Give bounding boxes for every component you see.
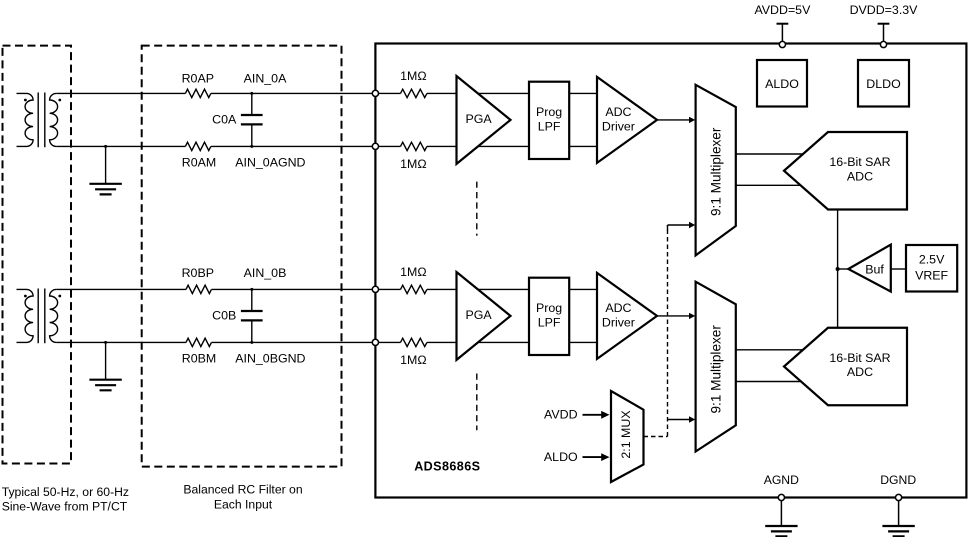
wire LPF B to driver B [569, 289, 597, 342]
op-amp Buf [848, 245, 891, 292]
svg-text:Sine-Wave from PT/CT: Sine-Wave from PT/CT [2, 500, 128, 514]
wire driver A to mux (arrow) [657, 117, 695, 123]
wire 2:1 MUX output (dashed net) [644, 225, 668, 437]
op-amp PGA A [457, 76, 511, 164]
multiplexer U-MUXA 9:1 [696, 85, 736, 256]
svg-text:R0AM: R0AM [182, 155, 216, 169]
power AVDD=5V [754, 3, 811, 48]
svg-text:AVDD: AVDD [544, 407, 578, 421]
wire: channel A top (AIN_0A) [56, 92, 185, 94]
svg-text:AGND: AGND [764, 473, 799, 487]
resistor R0BM [182, 338, 216, 365]
resistor 1Mohm (AIN_0AGND) [400, 142, 427, 171]
transformer T2 [17, 289, 62, 344]
resistor R0BP [182, 266, 214, 294]
ground AGND [765, 526, 797, 536]
svg-text:C0A: C0A [212, 113, 237, 127]
op-amp ADC Driver A [597, 77, 657, 163]
wire VREF to buf [891, 268, 906, 270]
svg-text:1MΩ: 1MΩ [400, 69, 426, 83]
svg-text:1MΩ: 1MΩ [400, 265, 426, 279]
op-amp PGA B [457, 272, 511, 360]
wire [427, 92, 457, 94]
wire LPF A to driver A [569, 93, 597, 146]
svg-text:Each Input: Each Input [214, 498, 273, 512]
svg-text:DGND: DGND [880, 473, 916, 487]
pin AIN_0A (terminal circle) [372, 90, 378, 96]
caption balanced RC filter [183, 483, 302, 512]
wire buf output [838, 268, 849, 270]
ground (transformer T2 secondary) [89, 341, 121, 390]
svg-text:Buf: Buf [865, 263, 884, 277]
pin AIN_0AGND (terminal circle) [372, 143, 378, 149]
wire: channel A bottom (AIN_0AGND) [56, 145, 185, 147]
wire: 1M resistor A top [379, 92, 401, 94]
svg-text:Prog: Prog [536, 105, 562, 119]
ground (transformer T1 secondary) [89, 145, 121, 195]
wire PGA A to LPF A [478, 93, 529, 146]
svg-text:R0BP: R0BP [182, 266, 214, 280]
pin AIN_0B (terminal circle) [372, 286, 378, 292]
wire: 1M resistor B top [379, 288, 401, 290]
svg-text:ADC: ADC [605, 301, 631, 315]
pin AIN_0BGND (terminal circle) [372, 339, 378, 345]
svg-text:AIN_0BGND: AIN_0BGND [235, 351, 305, 365]
svg-text:2.5V: 2.5V [919, 253, 945, 267]
svg-text:ALDO: ALDO [765, 77, 799, 91]
label ADS8686S [414, 460, 480, 474]
wire [212, 288, 373, 290]
svg-text:ADC: ADC [847, 365, 873, 379]
svg-text:2:1 MUX: 2:1 MUX [619, 410, 633, 458]
wire [211, 92, 373, 94]
ADS8686S outer box [375, 44, 966, 498]
pin DGND [880, 473, 916, 526]
wire: 1M resistor B bottom [379, 341, 401, 343]
svg-text:16-Bit SAR: 16-Bit SAR [829, 351, 890, 365]
resistor R0AM [182, 142, 216, 169]
svg-text:AIN_0AGND: AIN_0AGND [235, 155, 305, 169]
svg-text:VREF: VREF [915, 268, 948, 282]
transformer T1 [17, 93, 62, 148]
wire [212, 341, 373, 343]
resistor 1Mohm (AIN_0B) [400, 265, 427, 294]
capacitor C0A [212, 93, 262, 146]
svg-text:9:1 Multiplexer: 9:1 Multiplexer [708, 325, 723, 414]
node reference junction [836, 267, 840, 271]
svg-text:DVDD=3.3V: DVDD=3.3V [850, 3, 919, 17]
regulator DLDO [858, 60, 909, 107]
power DVDD=3.3V [850, 3, 919, 48]
svg-text:AIN_0B: AIN_0B [244, 266, 287, 280]
svg-text:9:1 Multiplexer: 9:1 Multiplexer [708, 127, 723, 216]
reference 2.5V VREF [906, 245, 957, 292]
resistor R0AP [182, 72, 214, 98]
multiplexer 2:1 MUX [611, 391, 644, 482]
wire dashed net to mux A (arrow) [668, 222, 696, 231]
node AIN_0AGND [235, 145, 305, 169]
op-amp ADC Driver B [597, 273, 657, 359]
node AIN_0A [244, 72, 287, 95]
svg-text:16-Bit SAR: 16-Bit SAR [829, 155, 890, 169]
svg-text:LPF: LPF [538, 119, 561, 133]
filter Prog LPF A [529, 82, 569, 159]
svg-text:C0B: C0B [212, 309, 236, 323]
wire dashed net to mux B (arrow) [668, 416, 696, 422]
svg-text:R0BM: R0BM [182, 351, 216, 365]
capacitor C0B [212, 289, 262, 342]
wire mux A to SAR ADC A [736, 154, 803, 185]
dashed box: balanced RC filter [142, 46, 342, 467]
svg-text:ALDO: ALDO [544, 450, 578, 464]
svg-text:Prog: Prog [536, 301, 562, 315]
filter Prog LPF B [529, 278, 569, 355]
svg-text:R0AP: R0AP [182, 72, 214, 86]
svg-text:ADC: ADC [605, 105, 631, 119]
node AIN_0BGND [235, 341, 305, 365]
svg-text:Balanced RC Filter on: Balanced RC Filter on [183, 483, 302, 497]
regulator ALDO [757, 60, 807, 107]
svg-text:AIN_0A: AIN_0A [244, 72, 287, 86]
pin AGND [764, 473, 799, 526]
multiplexer U-MUXB 9:1 [696, 282, 736, 452]
svg-text:Driver: Driver [602, 315, 635, 329]
wire mux B to SAR ADC B [736, 350, 803, 382]
dashed box: PT/CT source [3, 46, 72, 464]
svg-text:LPF: LPF [538, 315, 561, 329]
wire driver B to mux (arrow) [657, 313, 695, 319]
svg-text:Typical 50-Hz, or 60-Hz: Typical 50-Hz, or 60-Hz [2, 485, 129, 499]
wire: 1M resistor A bottom [379, 145, 401, 147]
ADC converter B (16-Bit SAR ADC) [784, 328, 907, 406]
ground DGND [882, 526, 914, 536]
wire AVDD input (arrow) [544, 407, 609, 421]
wire [427, 145, 457, 147]
wire [211, 145, 373, 147]
svg-text:PGA: PGA [466, 308, 493, 322]
svg-text:DLDO: DLDO [866, 77, 901, 91]
svg-text:ADC: ADC [847, 169, 873, 183]
wire PGA B to LPF B [478, 289, 529, 342]
resistor 1Mohm (AIN_0BGND) [400, 338, 427, 367]
svg-text:ADS8686S: ADS8686S [414, 460, 480, 474]
svg-text:AVDD=5V: AVDD=5V [754, 3, 811, 17]
svg-text:1MΩ: 1MΩ [400, 353, 426, 367]
wire: channel B bottom (AIN_0BGND) [56, 341, 186, 343]
caption PT/CT source [2, 485, 129, 514]
wire ALDO input (arrow) [544, 450, 610, 464]
wire [427, 341, 457, 343]
wire [427, 288, 457, 290]
dashed continuation marks between channels [476, 182, 478, 431]
wire: channel B top (AIN_0B) [56, 288, 186, 290]
wire between SAR ADCs / reference rail [837, 210, 839, 328]
svg-text:Driver: Driver [602, 119, 635, 133]
resistor 1Mohm (AIN_0A) [400, 69, 427, 98]
svg-text:PGA: PGA [466, 112, 493, 126]
svg-text:1MΩ: 1MΩ [400, 157, 426, 171]
node AIN_0B [244, 266, 287, 291]
ADC converter A (16-Bit SAR ADC) [784, 132, 907, 210]
